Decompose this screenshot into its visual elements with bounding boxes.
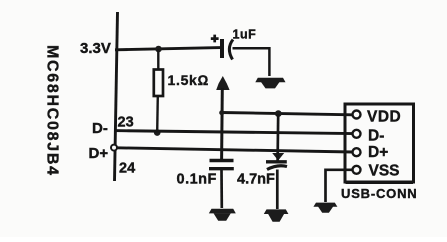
svg-text:23: 23 (118, 114, 134, 130)
svg-text:4.7nF: 4.7nF (237, 172, 275, 188)
capacitor C1 right curved plate (229, 40, 233, 60)
wire from C1 to ground corner (233, 48, 270, 76)
MCU D+ pin circle (111, 145, 117, 151)
svg-text:1uF: 1uF (233, 28, 257, 42)
svg-text:D-: D- (92, 120, 108, 137)
svg-text:D+: D+ (368, 144, 388, 161)
wire vertical 4.7nF branch (276, 114, 279, 161)
connector J1 box bottom edge emphasis (346, 182, 414, 184)
junction dot on 3.3V rail at resistor (155, 46, 162, 53)
wire VDD net horizontal to connector (221, 113, 353, 115)
wire C3 to ground (276, 170, 279, 210)
wire D+ from MCU to connector (117, 148, 353, 152)
wire D- from MCU to connector (114, 131, 353, 134)
ground symbol G2 below C2 (209, 209, 236, 221)
svg-text:1.5kΩ: 1.5kΩ (168, 72, 210, 88)
wire C2 to ground (220, 170, 223, 208)
svg-text:24: 24 (119, 161, 135, 177)
wire vertical VDD branch through D-/D+ to C2 (220, 88, 224, 160)
ground symbol G3 below C3 (264, 209, 289, 221)
connector J1 USB-CONN box (345, 104, 414, 182)
arrow down on 4.7nF branch below D+ (272, 153, 284, 161)
svg-text:3.3V: 3.3V (80, 40, 111, 57)
svg-text:MC68HC08JB4: MC68HC08JB4 (44, 45, 61, 175)
resistor R1 1.5k body (154, 70, 163, 97)
junction dot at VDD corner (219, 110, 224, 115)
wire resistor top lead (157, 49, 159, 70)
capacitor C2 0.1nF bottom plate (209, 167, 234, 170)
capacitor C3 4.7nF bottom curved plate (267, 166, 287, 170)
wire 3.3V rail (115, 48, 221, 50)
connector J1 pin circle VDD (353, 111, 361, 119)
wire VSS to ground (326, 170, 353, 202)
MCU U1 MC68HC08JB4 left boundary line (115, 12, 118, 181)
capacitor C1 plus sign (211, 35, 219, 43)
svg-text:USB-CONN: USB-CONN (341, 186, 417, 201)
capacitor C1 left plate (220, 39, 224, 58)
svg-text:D+: D+ (89, 145, 109, 162)
svg-text:0.1nF: 0.1nF (177, 172, 217, 188)
svg-text:VSS: VSS (369, 162, 400, 179)
ground symbol G1 top right (255, 78, 285, 89)
arrow up on VDD branch (216, 76, 229, 90)
junction dot on D- line at resistor (154, 129, 161, 136)
svg-text:D-: D- (368, 128, 384, 145)
capacitor C2 0.1nF top plate (210, 159, 234, 162)
svg-text:VDD: VDD (367, 109, 401, 126)
ground symbol G4 for VSS (313, 203, 337, 213)
connector J1 pin circle VSS (353, 166, 361, 174)
wire resistor bottom lead (156, 96, 159, 132)
connector J1 pin circle D+ (353, 148, 361, 156)
junction dot VDD net at 4.7nF branch (275, 110, 282, 117)
connector J1 pin circle D- (353, 130, 361, 138)
capacitor C3 4.7nF top plate (266, 160, 287, 163)
